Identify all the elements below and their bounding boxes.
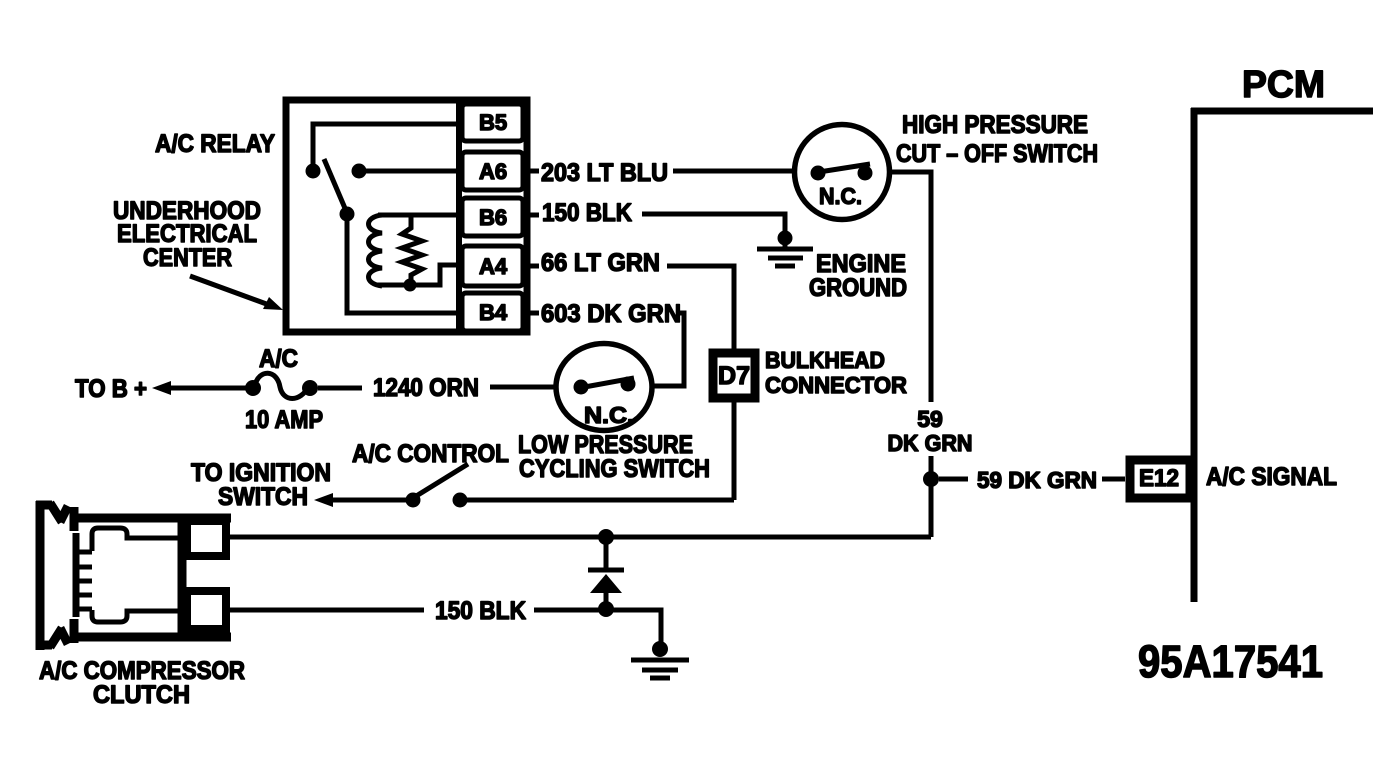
svg-text:B4: B4 bbox=[479, 300, 508, 325]
HP switch left contact bbox=[811, 166, 826, 181]
svg-text:CUT – OFF SWITCH: CUT – OFF SWITCH bbox=[896, 140, 1098, 168]
diode D1 bbox=[588, 537, 624, 609]
svg-text:SWITCH: SWITCH bbox=[218, 483, 308, 511]
label LOW PRESSURE CYCLING SWITCH bbox=[518, 431, 710, 483]
relay movable contact pivot bbox=[340, 207, 355, 222]
svg-text:HIGH PRESSURE: HIGH PRESSURE bbox=[902, 111, 1088, 139]
wire stub A6 bbox=[527, 169, 539, 174]
engine ground symbol bbox=[757, 238, 813, 266]
arrow to ignition switch bbox=[314, 493, 406, 507]
wire stub B4 bbox=[527, 311, 539, 316]
wire coil top to B6 bbox=[378, 213, 459, 218]
wire to E12 bbox=[939, 477, 968, 482]
A/C control switch left contact bbox=[406, 493, 421, 508]
wire fuse to 1240 ORN bbox=[318, 386, 362, 391]
low pressure cycling switch body bbox=[556, 344, 652, 431]
terminal B4 bbox=[462, 293, 523, 331]
svg-text:BULKHEAD: BULKHEAD bbox=[765, 347, 885, 373]
wire coil bottom bbox=[377, 265, 459, 285]
label 59 DK GRN (vertical wire) bbox=[888, 406, 973, 456]
LP switch arm bbox=[579, 378, 634, 388]
svg-text:150 BLK: 150 BLK bbox=[435, 597, 526, 625]
svg-text:DK GRN: DK GRN bbox=[888, 430, 973, 456]
wire 203 LT BLU to high pressure switch bbox=[673, 169, 794, 174]
ground (bottom) bbox=[631, 641, 689, 678]
terminal A4 bbox=[462, 246, 523, 286]
label BULKHEAD CONNECTOR bbox=[765, 347, 907, 398]
wire 150 BLK from clutch bbox=[229, 608, 424, 613]
junction node on 150 BLK bbox=[598, 601, 614, 617]
svg-text:CONNECTOR: CONNECTOR bbox=[765, 372, 907, 398]
wire B5 to relay common contact bbox=[313, 124, 459, 168]
A/C compressor clutch grommet bbox=[36, 501, 74, 650]
svg-text:A/C CONTROL: A/C CONTROL bbox=[352, 440, 509, 468]
svg-text:GROUND: GROUND bbox=[809, 274, 907, 302]
label ENGINE GROUND bbox=[809, 250, 907, 302]
svg-text:D7: D7 bbox=[718, 362, 750, 390]
svg-text:TO B +: TO B + bbox=[75, 375, 147, 403]
svg-text:95A17541: 95A17541 bbox=[1138, 636, 1323, 687]
wire A6 contact bbox=[359, 169, 459, 174]
svg-text:203 LT BLU: 203 LT BLU bbox=[541, 159, 668, 187]
svg-text:A/C SIGNAL: A/C SIGNAL bbox=[1206, 463, 1337, 491]
LP switch left contact bbox=[574, 380, 589, 395]
relay fixed contact node (to B5) bbox=[306, 164, 321, 179]
wire into E12 bbox=[1102, 477, 1125, 482]
label HIGH PRESSURE CUT-OFF SWITCH bbox=[896, 111, 1098, 168]
high pressure cut-off switch body bbox=[795, 125, 890, 220]
terminal B5 bbox=[462, 104, 523, 141]
label TO IGNITION SWITCH bbox=[191, 459, 331, 511]
A/C control switch arm bbox=[413, 464, 468, 498]
svg-text:A6: A6 bbox=[479, 159, 507, 184]
relay coil L1 bbox=[369, 215, 383, 286]
wire HP switch output to PCM column bbox=[889, 172, 931, 402]
wire LP switch to hook bbox=[652, 384, 684, 389]
terminal A6 bbox=[462, 152, 523, 190]
svg-text:1240 ORN: 1240 ORN bbox=[373, 374, 479, 402]
connector E12 bbox=[1130, 460, 1190, 498]
svg-text:PCM: PCM bbox=[1242, 64, 1325, 106]
svg-text:59: 59 bbox=[917, 406, 943, 432]
engine ground junction dot bbox=[778, 231, 793, 246]
A/C compressor clutch body bbox=[73, 518, 231, 637]
pointer arrow to relay box bbox=[190, 276, 283, 310]
coil bottom junction bbox=[404, 279, 417, 292]
HP switch right contact bbox=[858, 166, 873, 181]
wire 150 BLK to engine ground bbox=[642, 214, 785, 232]
relay switch arm K1 bbox=[324, 159, 347, 213]
svg-text:A/C: A/C bbox=[259, 345, 298, 373]
clutch terminal lower bbox=[187, 591, 226, 629]
svg-text:E12: E12 bbox=[1139, 465, 1179, 492]
LP switch right contact bbox=[621, 377, 636, 392]
wire stub A4 bbox=[527, 264, 539, 269]
label UNDERHOOD ELECTRICAL CENTER bbox=[113, 197, 261, 272]
wire A/C control switch to D7 bbox=[460, 498, 734, 503]
clutch inner cavity profile bbox=[76, 528, 180, 622]
relay coil resistor R1 bbox=[402, 216, 422, 284]
svg-text:A4: A4 bbox=[479, 254, 508, 279]
svg-text:59 DK GRN: 59 DK GRN bbox=[977, 467, 1097, 493]
svg-text:B6: B6 bbox=[479, 205, 507, 230]
svg-text:603 DK GRN: 603 DK GRN bbox=[541, 300, 681, 328]
arrow to B+ bbox=[152, 381, 253, 395]
relay box outline (Underhood Electrical Center) bbox=[286, 100, 527, 332]
relay terminal strip divider bbox=[456, 100, 462, 332]
svg-text:CLUTCH: CLUTCH bbox=[93, 681, 190, 709]
wire 66 LT GRN down to bulkhead connector bbox=[667, 266, 734, 349]
svg-text:A/C RELAY: A/C RELAY bbox=[155, 130, 275, 158]
svg-text:N.C.: N.C. bbox=[819, 183, 862, 209]
svg-text:150 BLK: 150 BLK bbox=[542, 199, 632, 227]
svg-text:66 LT GRN: 66 LT GRN bbox=[541, 249, 660, 277]
terminal B6 bbox=[462, 198, 523, 236]
fuse A/C 10 AMP bbox=[245, 373, 318, 398]
wire stub B6 bbox=[527, 213, 539, 218]
A/C control switch right contact bbox=[453, 493, 468, 508]
svg-text:N.C.: N.C. bbox=[584, 402, 634, 428]
PCM boundary line bbox=[1191, 108, 1373, 602]
clutch terminal upper bbox=[187, 521, 226, 556]
svg-text:CYCLING SWITCH: CYCLING SWITCH bbox=[519, 455, 710, 483]
label A/C COMPRESSOR CLUTCH bbox=[39, 657, 245, 709]
svg-text:B5: B5 bbox=[479, 110, 507, 135]
bulkhead connector D7 bbox=[713, 353, 755, 398]
junction node (diode tap) bbox=[598, 529, 614, 545]
wire 1240 ORN to low pressure switch bbox=[490, 385, 557, 390]
wire 150 BLK to ground bbox=[534, 610, 661, 644]
wire 603 DK GRN hook to low pressure switch bbox=[652, 313, 684, 386]
svg-text:10 AMP: 10 AMP bbox=[245, 406, 323, 434]
relay fixed contact node (to A6) bbox=[352, 164, 367, 179]
wire D7 down to A/C control switch bbox=[732, 402, 737, 500]
main wire to compressor clutch bbox=[229, 535, 931, 540]
HP switch arm bbox=[819, 164, 870, 172]
junction node 59 DK GRN bbox=[923, 471, 939, 487]
wire pivot to B4 bbox=[347, 214, 459, 313]
wire 59 DK GRN vertical lower part bbox=[929, 456, 934, 537]
svg-text:CENTER: CENTER bbox=[143, 244, 232, 272]
